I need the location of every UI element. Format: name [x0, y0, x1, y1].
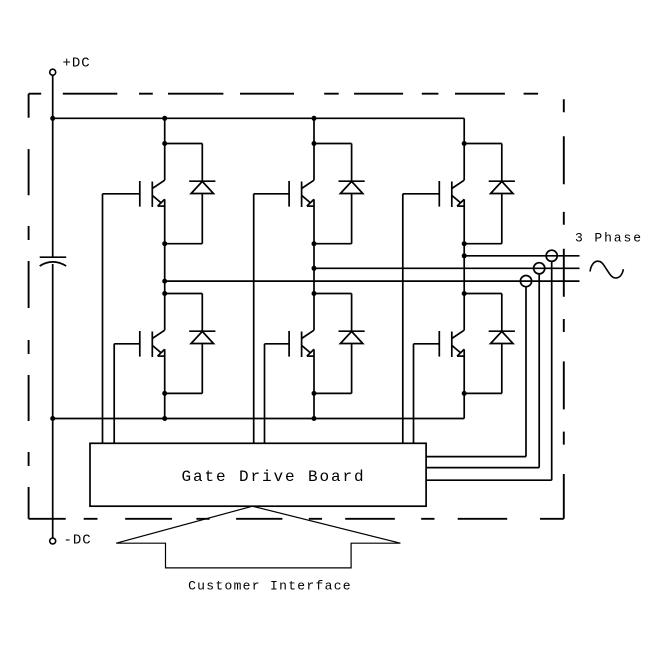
wire leg 3 upper emitter down — [463, 199, 465, 256]
svg-text:Customer Interface: Customer Interface — [188, 579, 352, 594]
node leg 1 +DC bus junction — [162, 116, 167, 121]
diode D4 (freewheel) — [339, 331, 365, 343]
wire leg 2 upper diode branch top — [314, 143, 352, 145]
diode D6 (freewheel) — [489, 331, 515, 343]
capacitor C1 (DC link) — [40, 118, 66, 418]
gate drive board U1 — [90, 443, 426, 506]
node leg 2 phase tap — [312, 266, 317, 271]
current sensor W (phase 1) — [520, 276, 531, 287]
node leg 1 lower emitter junction — [162, 391, 167, 396]
svg-text:+DC: +DC — [63, 56, 91, 72]
wire gate Q5 to board — [402, 194, 404, 444]
transistor Q5 (IGBT) — [403, 180, 464, 207]
wire sensor V (phase 2) feedback to board — [538, 274, 540, 468]
node cap-bottom bus junction — [50, 416, 55, 421]
transistor Q3 (IGBT) — [254, 180, 314, 207]
diode D5 (freewheel) — [489, 181, 515, 193]
node leg 3 lower emitter junction — [462, 391, 467, 396]
node leg 1 -DC bus junction — [162, 416, 167, 421]
svg-text:Gate Drive Board: Gate Drive Board — [181, 468, 365, 486]
wire sensor U (phase 3) feedback to board — [551, 261, 553, 480]
wire +DC to top bus — [52, 75, 54, 118]
wire gate Q6 to board — [413, 344, 415, 444]
wire leg 1 lower emitter to -DC bus — [164, 349, 166, 418]
diode D1 (freewheel) — [189, 181, 215, 193]
svg-text:3 Phase: 3 Phase — [575, 231, 643, 246]
node leg 3 upper emitter junction — [462, 241, 467, 246]
diode D3 (freewheel) — [339, 181, 365, 193]
wire leg 2 lower emitter to -DC bus — [313, 349, 315, 418]
node leg 3 lower collector junction — [462, 291, 467, 296]
node leg 3 phase tap — [462, 253, 467, 258]
transistor Q6 (IGBT) — [414, 330, 465, 357]
svg-text:-DC: -DC — [64, 533, 92, 549]
wire phase 3 output line — [464, 255, 579, 257]
node leg 2 +DC bus junction — [312, 116, 317, 121]
node leg 1 upper emitter junction — [162, 241, 167, 246]
node cap-top bus junction — [50, 116, 55, 121]
wire leg 1 upper emitter down — [164, 199, 166, 281]
node leg 2 lower emitter junction — [312, 391, 317, 396]
wire leg 3 upper diode branch top — [464, 143, 502, 145]
wire +DC bus — [53, 117, 465, 119]
node leg 2 upper emitter junction — [312, 241, 317, 246]
wire leg 3 lower emitter to -DC bus — [463, 349, 465, 418]
AC sine symbol — [590, 261, 623, 278]
terminal +DC — [50, 69, 56, 75]
node leg 2 lower collector junction — [312, 291, 317, 296]
node leg 1 lower collector junction — [162, 291, 167, 296]
transistor Q4 (IGBT) — [265, 330, 315, 357]
current sensor U (phase 3) — [546, 250, 557, 261]
wire sensor W (phase 1) feedback to board — [525, 287, 527, 457]
wire gate Q3 to board — [253, 194, 255, 444]
wire gate Q2 to board — [113, 344, 115, 444]
terminal -DC — [50, 538, 56, 544]
wire leg 1 upper diode anode return — [201, 194, 203, 244]
customer interface block arrow — [116, 506, 400, 568]
wire phase 2 output line — [314, 267, 580, 269]
wire bottom bus to -DC — [52, 419, 54, 539]
wire leg 1 midpoint to lower collector — [164, 281, 166, 330]
wire leg 1 lower diode anode return — [201, 344, 203, 394]
transistor Q2 (IGBT) — [114, 330, 165, 357]
enclosure dash-dot border — [29, 94, 564, 519]
wire -DC bus — [53, 418, 465, 420]
wire leg 2 midpoint to lower collector — [313, 268, 315, 330]
node leg 1 phase tap — [162, 279, 167, 284]
wire leg 2 collector from +DC bus — [313, 118, 315, 180]
wire leg 3 collector from +DC bus — [463, 118, 465, 180]
wire leg 2 upper diode anode return — [351, 194, 353, 244]
wire leg 3 lower diode branch top — [464, 293, 502, 295]
wire leg 1 lower diode branch top — [165, 293, 203, 295]
node leg 3 upper collector junction — [462, 141, 467, 146]
node leg 1 upper collector junction — [162, 141, 167, 146]
wire phase 1 output line — [165, 280, 580, 282]
wire leg 2 upper emitter down — [313, 199, 315, 268]
wire leg 1 collector from +DC bus — [164, 118, 166, 180]
diode D2 (freewheel) — [189, 331, 215, 343]
node leg 2 -DC bus junction — [312, 416, 317, 421]
transistor Q1 (IGBT) — [103, 180, 165, 207]
wire leg 1 upper diode branch top — [165, 143, 203, 145]
node leg 2 upper collector junction — [312, 141, 317, 146]
wire gate Q1 to board — [102, 194, 104, 444]
wire leg 2 lower diode branch top — [314, 293, 352, 295]
wire gate Q4 to board — [264, 344, 266, 444]
current sensor V (phase 2) — [534, 263, 545, 274]
wire leg 3 midpoint to lower collector — [463, 256, 465, 330]
wire leg 3 lower diode anode return — [501, 344, 503, 394]
wire leg 3 upper diode anode return — [501, 194, 503, 244]
wire leg 2 lower diode anode return — [351, 344, 353, 394]
